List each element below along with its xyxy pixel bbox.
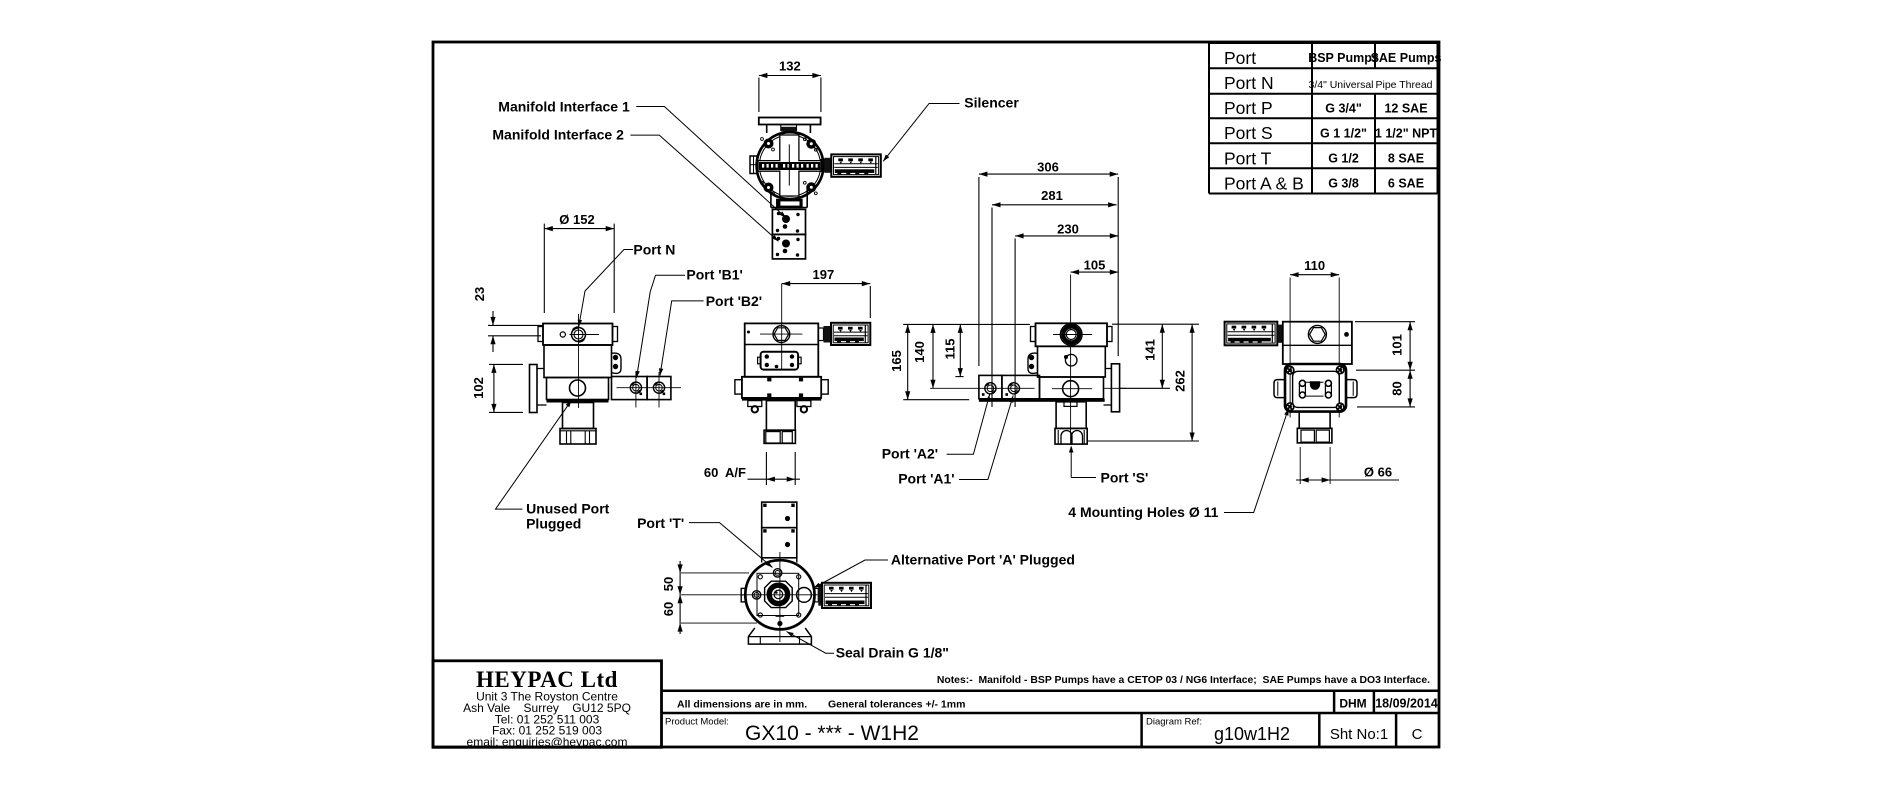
title block [433, 661, 1439, 748]
svg-text:115: 115 [943, 339, 958, 360]
svg-text:Port 'S': Port 'S' [1101, 470, 1149, 486]
RIGHT SIDE VIEW [889, 160, 1199, 486]
LEFT SIDE VIEW [471, 212, 681, 444]
seal drain [776, 615, 785, 617]
pedestal [766, 401, 795, 431]
svg-text:165: 165 [889, 350, 904, 372]
suction pedestal [563, 403, 594, 429]
svg-text:General tolerances +/- 1mm: General tolerances +/- 1mm [828, 699, 965, 711]
FRONT VIEW [704, 267, 870, 485]
left stub [741, 588, 745, 602]
manifold interface (front) [761, 352, 799, 370]
svg-text:G 3/4": G 3/4" [1325, 101, 1362, 115]
motor body circle [757, 132, 824, 199]
port T [773, 569, 781, 577]
silencer coupling (front) [818, 328, 823, 341]
svg-text:Port S: Port S [1224, 123, 1273, 143]
lower neck to manifold [770, 186, 772, 208]
port B2 [653, 382, 664, 393]
dimension 60 A/F [704, 452, 800, 485]
small centre port [1065, 354, 1077, 366]
svg-text:Ø 152: Ø 152 [559, 212, 594, 227]
svg-text:102: 102 [471, 377, 486, 399]
lower pump band [547, 378, 609, 400]
svg-text:Pipe Thread: Pipe Thread [1375, 79, 1432, 91]
svg-text:60: 60 [661, 602, 676, 616]
svg-text:Alternative Port 'A' Plugged: Alternative Port 'A' Plugged [891, 552, 1075, 568]
dimension 281 [992, 188, 1117, 407]
unused plugged port [570, 380, 586, 396]
svg-text:G 1/2: G 1/2 [1328, 152, 1359, 166]
svg-text:Silencer: Silencer [964, 95, 1019, 111]
foot [1055, 428, 1087, 444]
port S area circle [1063, 381, 1079, 397]
svg-text:Port N: Port N [633, 242, 675, 258]
svg-text:60 A/F: 60 A/F [704, 465, 746, 480]
alternative port A (plugged) [797, 588, 812, 603]
svg-text:1 1/2" NPT: 1 1/2" NPT [1375, 126, 1438, 140]
labels and leaders [492, 95, 1288, 661]
lifting bracket [611, 353, 621, 373]
corner bolts [758, 575, 762, 579]
dimension 80 [1357, 370, 1415, 407]
BOTTOM VIEW [661, 502, 871, 644]
body upper [745, 323, 819, 376]
svg-text:Diagram Ref:: Diagram Ref: [1146, 717, 1202, 728]
silencer (front view) [831, 323, 870, 345]
motor top section [543, 324, 613, 346]
port A1 [1008, 383, 1019, 394]
port B1/B2 manifold extension [612, 377, 648, 400]
svg-text:Unused Port: Unused Port [526, 501, 610, 517]
svg-text:Manifold Interface 2: Manifold Interface 2 [492, 127, 624, 143]
svg-text:18/09/2014: 18/09/2014 [1375, 697, 1438, 711]
mounting flange (right) [1111, 364, 1119, 412]
svg-text:101: 101 [1390, 334, 1405, 356]
svg-text:110: 110 [1304, 258, 1325, 273]
port N (left view) [572, 328, 586, 342]
svg-text:197: 197 [813, 267, 835, 282]
svg-text:Port 'A1': Port 'A1' [898, 471, 954, 487]
svg-text:DHM: DHM [1339, 697, 1366, 711]
flange neck [766, 125, 768, 134]
side tabs [1274, 380, 1285, 398]
ports A2/A1 manifold extension [979, 375, 1002, 398]
svg-text:Plugged: Plugged [526, 516, 581, 532]
centrelines [779, 552, 781, 642]
svg-text:105: 105 [1084, 258, 1106, 273]
right dims 141/262 [1088, 324, 1199, 441]
svg-text:12 SAE: 12 SAE [1384, 101, 1427, 115]
drawing border frame [433, 42, 1439, 747]
motor middle section [544, 345, 612, 378]
silencer (bottom view) [822, 583, 871, 608]
svg-text:Port P: Port P [1224, 98, 1273, 118]
svg-text:Manifold Interface 1: Manifold Interface 1 [498, 99, 630, 115]
svg-text:g10w1H2: g10w1H2 [1214, 724, 1290, 744]
dimension 132 [759, 59, 821, 113]
left stub port [750, 156, 757, 174]
svg-text:140: 140 [912, 341, 927, 363]
svg-text:Port N: Port N [1224, 73, 1274, 93]
svg-text:Ø 66: Ø 66 [1364, 465, 1392, 480]
inner face [1293, 371, 1340, 407]
svg-text:Port 'B2': Port 'B2' [706, 293, 762, 309]
svg-text:email: enquiries@heypac.com: email: enquiries@heypac.com [467, 735, 628, 749]
breather hex [1308, 325, 1326, 343]
pedestal [1299, 412, 1330, 429]
shaft seal housing [765, 581, 793, 607]
motor flange plate (top) [759, 118, 821, 125]
mounting flange (left) [530, 365, 538, 413]
pump end circle [745, 560, 814, 629]
svg-text:G 1 1/2": G 1 1/2" [1320, 126, 1367, 140]
pedestal [1056, 402, 1086, 429]
foot [560, 429, 596, 445]
svg-text:23: 23 [472, 287, 487, 301]
base thick line [979, 399, 1105, 402]
left gauge port [752, 591, 760, 599]
port A2 [985, 383, 996, 394]
svg-text:Sht No:1: Sht No:1 [1330, 726, 1388, 743]
clamp lugs (4) [764, 139, 774, 149]
port N (hatched) [1060, 324, 1082, 346]
foot [1297, 428, 1332, 443]
port stubs below [748, 401, 762, 407]
svg-text:50: 50 [661, 577, 676, 591]
silencer coupling (bottom) [815, 588, 819, 602]
port B1 [630, 382, 641, 393]
silencer (top view) [831, 154, 881, 176]
port S leader [1069, 446, 1074, 453]
svg-text:Port 'A2': Port 'A2' [882, 446, 938, 462]
port size table [1209, 43, 1438, 194]
inner bolt square [757, 573, 799, 615]
svg-text:141: 141 [1143, 339, 1158, 361]
lower band [742, 377, 821, 398]
svg-text:8 SAE: 8 SAE [1388, 152, 1424, 166]
plug boss under band [1064, 402, 1077, 407]
port N front (hex plug) [773, 326, 790, 343]
bracket (left) [1028, 353, 1038, 373]
svg-text:6 SAE: 6 SAE [1388, 177, 1424, 191]
silencer coupling [821, 160, 824, 172]
nameplate band with embossed text [759, 162, 820, 170]
svg-text:Port 'T': Port 'T' [637, 515, 684, 531]
svg-text:306: 306 [1037, 160, 1059, 175]
left dims 165/140/115 [889, 324, 1035, 399]
svg-text:Seal Drain G 1/8": Seal Drain G 1/8" [836, 645, 949, 661]
internal cross casting [758, 135, 822, 196]
svg-text:C: C [1412, 726, 1423, 743]
dimension dia 152 [544, 212, 614, 313]
dimension 230 [1015, 222, 1118, 408]
svg-text:230: 230 [1057, 222, 1079, 237]
vertical centreline [788, 144, 790, 185]
svg-text:Product Model:: Product Model: [665, 717, 729, 728]
manifold interface block (end) [1285, 364, 1346, 412]
TOP VIEW: pump plan view [750, 59, 881, 259]
silencer (end view) [1225, 322, 1278, 346]
foot (bottom view) [748, 628, 811, 644]
CETOP port pattern [1299, 380, 1305, 386]
dimension 101 [1355, 322, 1415, 371]
svg-text:Port A & B: Port A & B [1224, 173, 1304, 193]
svg-text:Port 'B1': Port 'B1' [686, 267, 742, 283]
svg-text:Port: Port [1224, 48, 1256, 68]
svg-text:SAE Pumps: SAE Pumps [1371, 51, 1442, 65]
dimensions 50/60 [661, 561, 757, 634]
svg-text:G 3/8: G 3/8 [1328, 177, 1359, 191]
motor body (end) [1283, 322, 1352, 364]
manifold interface block 1 [772, 209, 805, 234]
END VIEW (far right) [1225, 258, 1415, 484]
svg-text:281: 281 [1041, 188, 1063, 203]
svg-text:All dimensions are in mm.: All dimensions are in mm. [677, 699, 807, 711]
dimension dia 66 [1296, 447, 1399, 484]
svg-text:HEYPAC Ltd: HEYPAC Ltd [476, 667, 618, 692]
manifold blocks (edge-on) [762, 502, 797, 528]
dimension 306 [979, 160, 1118, 367]
lower band [1040, 377, 1104, 399]
foot [764, 430, 795, 443]
svg-text:Notes:- Manifold - BSP Pumps: Notes:- Manifold - BSP Pumps have a CETO… [937, 675, 1430, 686]
silencer coupling [1277, 325, 1283, 343]
manifold interface block 2 [772, 234, 805, 259]
motor top section [1036, 323, 1108, 346]
dimension 197 [782, 267, 871, 318]
dimension 102 [471, 364, 523, 412]
middle section [1038, 346, 1106, 377]
svg-text:4 Mounting Holes Ø 11: 4 Mounting Holes Ø 11 [1068, 504, 1218, 520]
svg-text:132: 132 [779, 59, 801, 74]
svg-text:BSP Pumps: BSP Pumps [1308, 51, 1379, 65]
base thick line [547, 400, 609, 403]
svg-text:262: 262 [1173, 370, 1188, 392]
svg-text:80: 80 [1390, 381, 1405, 395]
svg-text:3/4" Universal: 3/4" Universal [1308, 79, 1373, 91]
dimension 23 [472, 287, 543, 352]
svg-text:GX10 - *** - W1H2: GX10 - *** - W1H2 [745, 722, 919, 745]
4 mounting bolt holes [1286, 366, 1295, 375]
svg-text:Port T: Port T [1224, 148, 1272, 168]
dimension 105 [1071, 258, 1119, 446]
dimension 110 [1290, 258, 1339, 418]
